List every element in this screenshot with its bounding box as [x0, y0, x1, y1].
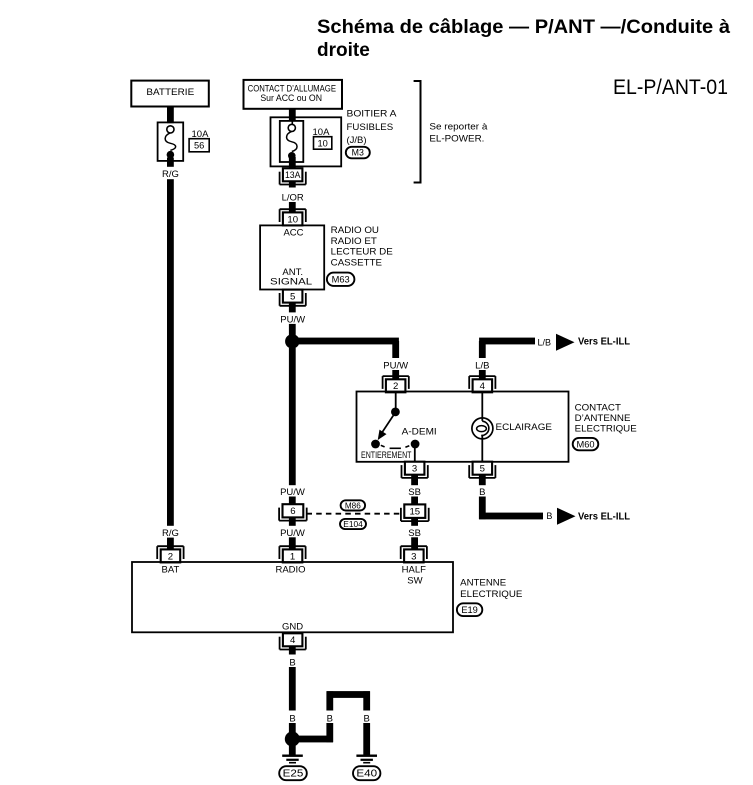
svg-text:CASSETTE: CASSETTE	[331, 257, 382, 268]
svg-text:L/B: L/B	[538, 337, 552, 347]
svg-text:ELECTRIQUE: ELECTRIQUE	[460, 589, 522, 600]
svg-text:EL-POWER.: EL-POWER.	[429, 133, 484, 144]
svg-text:6: 6	[290, 506, 295, 517]
svg-text:HALF: HALF	[402, 565, 426, 576]
svg-text:RADIO OU: RADIO OU	[331, 225, 379, 236]
svg-text:LECTEUR DE: LECTEUR DE	[331, 247, 393, 258]
svg-text:ENTIEREMENT: ENTIEREMENT	[361, 450, 412, 460]
svg-text:10: 10	[287, 214, 298, 225]
svg-text:2: 2	[393, 381, 398, 392]
svg-text:A-DEMI: A-DEMI	[402, 427, 437, 438]
svg-text:15: 15	[409, 507, 420, 518]
svg-text:M60: M60	[576, 439, 594, 449]
svg-text:(J/B): (J/B)	[347, 135, 367, 146]
svg-text:PU/W: PU/W	[280, 528, 305, 539]
svg-text:SB: SB	[408, 487, 421, 498]
svg-text:Vers EL-ILL: Vers EL-ILL	[578, 511, 630, 522]
svg-text:B: B	[289, 658, 295, 669]
svg-text:Se reporter à: Se reporter à	[429, 121, 488, 132]
svg-text:GND: GND	[282, 622, 303, 633]
svg-text:3: 3	[412, 464, 417, 475]
svg-text:Vers EL-ILL: Vers EL-ILL	[578, 337, 630, 348]
svg-text:E25: E25	[283, 769, 304, 780]
svg-text:L/OR: L/OR	[282, 192, 304, 203]
svg-text:M86: M86	[345, 501, 361, 510]
svg-text:PU/W: PU/W	[280, 314, 305, 325]
svg-text:5: 5	[480, 464, 485, 475]
svg-text:4: 4	[480, 381, 486, 392]
svg-text:L/B: L/B	[475, 361, 489, 372]
svg-text:R/G: R/G	[162, 528, 179, 539]
svg-text:M63: M63	[332, 275, 350, 285]
svg-text:SW: SW	[407, 576, 422, 587]
svg-text:ELECTRIQUE: ELECTRIQUE	[575, 424, 637, 435]
svg-text:PU/W: PU/W	[280, 487, 305, 498]
svg-text:B: B	[546, 511, 552, 521]
svg-text:4: 4	[290, 635, 296, 646]
svg-text:R/G: R/G	[162, 169, 179, 180]
svg-text:M3: M3	[352, 148, 364, 158]
svg-text:E40: E40	[356, 769, 377, 780]
svg-text:PU/W: PU/W	[383, 361, 408, 372]
svg-text:BATTERIE: BATTERIE	[146, 87, 194, 98]
svg-text:10: 10	[318, 139, 328, 149]
svg-text:B: B	[479, 487, 485, 498]
svg-text:ANTENNE: ANTENNE	[460, 578, 506, 589]
svg-text:56: 56	[194, 141, 204, 151]
svg-text:1: 1	[290, 551, 295, 562]
svg-text:Schéma de câblage — P/ANT —/Co: Schéma de câblage — P/ANT —/Conduite à	[317, 17, 730, 38]
svg-text:Sur ACC ou ON: Sur ACC ou ON	[260, 93, 322, 103]
svg-text:13A: 13A	[285, 170, 301, 181]
svg-text:E19: E19	[461, 605, 478, 615]
svg-text:FUSIBLES: FUSIBLES	[347, 122, 394, 133]
svg-text:droite: droite	[317, 40, 370, 61]
svg-text:B: B	[327, 714, 333, 725]
svg-text:ACC: ACC	[283, 227, 303, 238]
svg-text:3: 3	[411, 551, 416, 562]
svg-text:5: 5	[290, 292, 295, 303]
svg-text:BOITIER A: BOITIER A	[347, 109, 398, 120]
svg-text:CONTACT: CONTACT	[575, 403, 621, 414]
svg-text:E104: E104	[343, 520, 363, 529]
svg-text:EL-P/ANT-01: EL-P/ANT-01	[613, 76, 728, 99]
svg-text:2: 2	[168, 551, 173, 562]
svg-text:RADIO ET: RADIO ET	[331, 236, 377, 247]
svg-text:SIGNAL: SIGNAL	[270, 276, 312, 287]
svg-text:BAT: BAT	[162, 565, 180, 576]
svg-text:B: B	[289, 714, 295, 725]
svg-text:SB: SB	[408, 528, 421, 539]
svg-text:D’ANTENNE: D’ANTENNE	[575, 413, 631, 424]
svg-text:CONTACT D’ALLUMAGE: CONTACT D’ALLUMAGE	[248, 83, 336, 93]
svg-text:ECLAIRAGE: ECLAIRAGE	[496, 422, 553, 433]
svg-text:B: B	[364, 714, 370, 725]
svg-text:RADIO: RADIO	[275, 565, 305, 576]
